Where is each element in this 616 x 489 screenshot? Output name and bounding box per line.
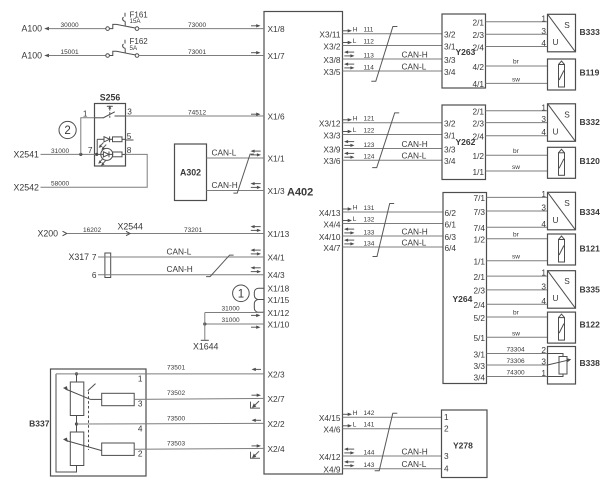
wire sw to B122 — [487, 336, 548, 338]
circled 1 marker — [233, 285, 250, 302]
svg-text:73001: 73001 — [188, 49, 206, 56]
svg-text:4/2: 4/2 — [472, 62, 484, 72]
svg-text:CAN-H: CAN-H — [402, 139, 428, 149]
svg-text:1: 1 — [238, 289, 244, 301]
sensor B335 (pressure) — [548, 271, 576, 309]
svg-text:114: 114 — [364, 64, 375, 71]
svg-text:H: H — [353, 26, 358, 33]
wire Y264 7/4 to B334/4 — [487, 226, 548, 228]
wire 73000 — [139, 28, 264, 30]
svg-text:X1/8: X1/8 — [268, 24, 285, 34]
svg-text:15001: 15001 — [61, 49, 79, 56]
svg-text:X1/10: X1/10 — [268, 320, 290, 330]
junction dot — [203, 322, 206, 325]
svg-text:1: 1 — [541, 102, 546, 112]
svg-text:3: 3 — [541, 114, 546, 124]
S256 switch contact — [107, 105, 113, 107]
svg-text:4: 4 — [138, 424, 143, 434]
sensor B119 (temperature) — [548, 59, 576, 90]
svg-text:CAN-H: CAN-H — [402, 226, 428, 236]
sensor B333 (pressure) — [548, 14, 576, 52]
svg-text:X4/4: X4/4 — [323, 219, 340, 229]
svg-text:X3/5: X3/5 — [323, 67, 340, 77]
svg-text:7/1: 7/1 — [473, 193, 485, 203]
svg-text:X2542: X2542 — [14, 183, 40, 193]
svg-text:134: 134 — [364, 240, 375, 247]
wire sw to B120 — [486, 170, 548, 172]
svg-text:5/1: 5/1 — [473, 333, 485, 343]
svg-text:132: 132 — [364, 216, 375, 223]
wire Y262 2/3 to B332/3 — [486, 122, 548, 124]
svg-text:CAN-L: CAN-L — [212, 147, 237, 157]
svg-text:15A: 15A — [130, 18, 142, 25]
wire 143 CAN-L — [343, 468, 442, 470]
svg-text:B337: B337 — [29, 419, 50, 429]
svg-text:73306: 73306 — [507, 358, 525, 365]
svg-text:X4/9: X4/9 — [323, 465, 340, 475]
wire 73304 (Y264 3/1 to B338/2) — [487, 353, 548, 355]
svg-text:4/1: 4/1 — [472, 79, 484, 89]
wire 133 CAN-H — [343, 235, 444, 237]
svg-text:X2541: X2541 — [14, 150, 40, 160]
svg-text:br: br — [513, 148, 520, 155]
svg-text:6: 6 — [92, 270, 97, 280]
svg-text:4: 4 — [541, 38, 546, 48]
wire 123 CAN-H — [343, 148, 443, 150]
wire 73001 — [139, 55, 264, 57]
svg-text:111: 111 — [364, 27, 374, 34]
svg-text:31000: 31000 — [51, 148, 69, 155]
fuse F162 5A — [106, 54, 110, 58]
wire 16202 / 73201 (X200 to X1/13) — [67, 233, 264, 235]
svg-text:4: 4 — [541, 219, 546, 229]
svg-text:3/1: 3/1 — [473, 349, 485, 359]
svg-text:8: 8 — [127, 145, 132, 155]
svg-text:X4/1: X4/1 — [268, 253, 285, 263]
wire Y264 2/1 to B335/1 — [487, 275, 548, 277]
sensor B121 (temperature) — [548, 234, 576, 265]
wire br to B121 — [487, 238, 548, 240]
B337 resistor (pin 3) — [102, 393, 135, 405]
svg-text:1: 1 — [138, 373, 143, 383]
wire Y262 2/1 to B332/1 — [486, 110, 548, 112]
svg-text:X3/6: X3/6 — [323, 156, 340, 166]
wire CAN-H (A302 to X1/3) — [207, 190, 265, 192]
sensor B334 (pressure) — [548, 192, 576, 230]
svg-text:3: 3 — [541, 26, 546, 36]
jumper X1/15 to X1/12 — [254, 300, 264, 313]
jumper X1/18 to X1/15 — [254, 288, 264, 299]
wire 132 (L) — [343, 223, 444, 225]
svg-text:B120: B120 — [580, 156, 601, 166]
svg-text:2/3: 2/3 — [472, 118, 484, 128]
svg-text:1: 1 — [541, 13, 546, 23]
svg-text:5: 5 — [127, 131, 132, 141]
svg-text:2/4: 2/4 — [473, 300, 485, 310]
svg-text:3/3: 3/3 — [473, 361, 485, 371]
wire Y264 2/4 to B335/4 — [487, 303, 548, 305]
svg-text:X1/7: X1/7 — [268, 51, 285, 61]
svg-text:A302: A302 — [180, 168, 201, 178]
svg-text:Y264: Y264 — [453, 294, 473, 304]
wire 58000 (X2542 to S256/8) — [41, 154, 148, 187]
svg-text:X4/7: X4/7 — [323, 243, 340, 253]
svg-text:X1/3: X1/3 — [268, 186, 285, 196]
wire 73502 (B337/3 to X2/7) — [134, 398, 264, 399]
wire 134 CAN-L — [343, 246, 444, 248]
wire 141 (L) — [343, 428, 442, 430]
svg-text:CAN-L: CAN-L — [402, 61, 427, 71]
wire br to B122 — [487, 316, 548, 318]
svg-text:2/1: 2/1 — [472, 18, 484, 28]
wire Y263 2/4 to B333/4 — [486, 46, 548, 48]
wire 114 CAN-L — [343, 70, 443, 72]
svg-text:H: H — [353, 205, 358, 212]
svg-text:CAN-H: CAN-H — [402, 49, 428, 59]
svg-text:4: 4 — [541, 127, 546, 137]
ground X1644 — [204, 313, 206, 340]
svg-text:3/2: 3/2 — [444, 119, 456, 129]
svg-text:X3/8: X3/8 — [323, 55, 340, 65]
wire 31000 (X2541 to S256/7) — [41, 153, 97, 155]
svg-text:CAN-L: CAN-L — [402, 459, 427, 469]
svg-text:X4/3: X4/3 — [268, 270, 285, 280]
svg-text:L: L — [353, 216, 357, 223]
svg-text:1/2: 1/2 — [473, 235, 485, 245]
wire 74300 (Y264 3/4 to B338/1) — [487, 376, 548, 378]
B337 wiper 2 — [66, 440, 102, 450]
B338 potentiometer resistor — [559, 357, 567, 375]
svg-text:X1/1: X1/1 — [268, 154, 285, 164]
svg-text:2/3: 2/3 — [473, 286, 485, 296]
svg-text:X4/12: X4/12 — [319, 452, 341, 462]
svg-text:H: H — [353, 410, 358, 417]
svg-text:B122: B122 — [580, 320, 601, 330]
svg-text:4: 4 — [541, 296, 546, 306]
wire sw to B121 — [487, 260, 548, 262]
wire 74512 (S256/3 to X1/6) — [126, 115, 265, 117]
svg-text:B338: B338 — [580, 358, 601, 368]
twisted pair marker — [372, 113, 399, 168]
control unit A302 box — [175, 144, 207, 201]
svg-text:7: 7 — [92, 252, 97, 262]
svg-text:1: 1 — [83, 108, 88, 118]
B337 coupling dashed line — [88, 392, 90, 451]
svg-text:A100: A100 — [22, 23, 43, 33]
svg-text:131: 131 — [364, 205, 375, 212]
wire 73500 (B337/4 to X2/2) — [77, 422, 265, 425]
svg-text:7: 7 — [88, 145, 93, 155]
wire 122 (L) — [343, 134, 443, 136]
svg-text:L: L — [353, 127, 357, 134]
B337 potentiometer 1 — [70, 382, 84, 416]
wire 142 (H) — [343, 416, 442, 418]
svg-text:3/1: 3/1 — [444, 130, 456, 140]
svg-text:X4/13: X4/13 — [319, 208, 341, 218]
B337 wiper 1 — [66, 389, 91, 399]
svg-text:X2544: X2544 — [118, 222, 144, 232]
connector unit Y264 box — [443, 193, 487, 384]
svg-text:X2/3: X2/3 — [268, 369, 285, 379]
svg-text:B332: B332 — [580, 117, 601, 127]
svg-text:X1644: X1644 — [193, 341, 219, 351]
junction dot (pin 4 wire) — [75, 422, 78, 425]
svg-text:br: br — [513, 310, 520, 317]
svg-text:58000: 58000 — [51, 181, 69, 188]
wire Y262 2/4 to B332/4 — [486, 135, 548, 137]
junction dot (pin 1 wire) — [75, 372, 78, 375]
sensor B120 (temperature) — [548, 147, 576, 178]
wire 111 (H) — [343, 33, 443, 35]
wire 31000 (to X1/12) — [205, 312, 264, 314]
svg-text:X3/11: X3/11 — [319, 30, 340, 40]
svg-text:7/4: 7/4 — [473, 223, 485, 233]
svg-text:X2/4: X2/4 — [268, 444, 285, 454]
S256 resistor (pin 8) — [109, 153, 113, 155]
svg-text:124: 124 — [364, 154, 375, 161]
svg-text:30000: 30000 — [61, 22, 79, 29]
svg-text:73501: 73501 — [167, 365, 185, 372]
sensor B332 (pressure) — [548, 104, 576, 142]
svg-text:2/1: 2/1 — [472, 107, 484, 117]
wire 124 CAN-L — [343, 159, 443, 161]
svg-text:3: 3 — [138, 399, 143, 409]
svg-text:5A: 5A — [130, 45, 138, 52]
svg-text:2: 2 — [444, 424, 449, 434]
svg-text:L: L — [353, 38, 357, 45]
svg-text:CAN-L: CAN-L — [402, 151, 427, 161]
svg-text:X3/9: X3/9 — [323, 144, 340, 154]
wire 73503 (B337/2 to X2/4) — [134, 447, 264, 450]
svg-text:br: br — [513, 231, 520, 238]
svg-text:3: 3 — [541, 203, 546, 213]
svg-text:2: 2 — [541, 345, 546, 355]
wire 31000 (to X1/10) — [205, 323, 264, 325]
junction dot — [79, 153, 82, 156]
svg-text:X317: X317 — [69, 252, 90, 262]
svg-text:A100: A100 — [22, 50, 43, 60]
svg-text:122: 122 — [364, 127, 375, 134]
svg-text:L: L — [353, 421, 357, 428]
wire 73501 (B337/1 to X2/3) — [56, 373, 264, 375]
svg-text:2/3: 2/3 — [472, 30, 484, 40]
svg-text:6/4: 6/4 — [445, 243, 457, 253]
wire 112 (L) — [343, 45, 443, 47]
svg-text:1/1: 1/1 — [472, 167, 484, 177]
svg-text:6/2: 6/2 — [445, 208, 457, 218]
connector unit Y278 box — [442, 410, 488, 478]
svg-text:142: 142 — [364, 410, 375, 417]
svg-text:16202: 16202 — [83, 227, 101, 234]
wire 73306 (Y264 3/3 to B338/3) — [487, 364, 548, 366]
B337 internal supply loop — [56, 374, 77, 472]
sensor B338 (potentiometer) box — [548, 347, 576, 385]
svg-text:X1/18: X1/18 — [268, 284, 290, 294]
svg-text:X2/7: X2/7 — [268, 394, 285, 404]
svg-text:H: H — [353, 115, 358, 122]
wire br to B120 — [486, 154, 548, 156]
svg-text:31000: 31000 — [222, 305, 240, 312]
twisted pair marker — [371, 27, 397, 82]
svg-text:144: 144 — [364, 449, 375, 456]
svg-text:1: 1 — [444, 412, 449, 422]
wire Y264 7/3 to B334/3 — [487, 210, 548, 212]
wire sw to B119 — [486, 82, 548, 84]
svg-text:B119: B119 — [580, 68, 600, 78]
svg-text:1/2: 1/2 — [472, 151, 484, 161]
svg-text:3/3: 3/3 — [444, 144, 456, 154]
wire 144 CAN-H — [343, 455, 442, 457]
svg-text:CAN-H: CAN-H — [167, 264, 193, 274]
svg-text:X2/2: X2/2 — [268, 419, 285, 429]
sensor B122 (temperature) — [548, 312, 576, 343]
svg-text:123: 123 — [364, 142, 375, 149]
svg-text:112: 112 — [364, 38, 375, 45]
svg-text:143: 143 — [364, 462, 375, 469]
B337 actuation stroke — [88, 384, 96, 391]
svg-text:X1/12: X1/12 — [268, 308, 290, 318]
svg-text:X4/10: X4/10 — [319, 232, 341, 242]
svg-text:3/4: 3/4 — [473, 372, 485, 382]
svg-text:X3/12: X3/12 — [319, 119, 341, 129]
svg-text:X1/13: X1/13 — [268, 229, 290, 239]
svg-text:73304: 73304 — [507, 346, 525, 353]
svg-text:3/4: 3/4 — [444, 156, 456, 166]
svg-text:br: br — [513, 59, 520, 66]
twisted pair marker — [375, 413, 398, 470]
svg-text:B121: B121 — [580, 244, 601, 254]
svg-text:CAN-L: CAN-L — [167, 246, 192, 256]
wire Y263 2/1 to B333/1 — [486, 21, 548, 23]
B337 potentiometer 2 — [70, 432, 84, 466]
svg-text:6/1: 6/1 — [445, 219, 457, 229]
wire junction to S256 pin 1 — [81, 118, 95, 155]
B337 resistor (pin 2) — [102, 443, 135, 455]
svg-text:4: 4 — [444, 464, 449, 474]
svg-text:113: 113 — [364, 52, 375, 59]
wire CAN-L (X317/7 to X4/1) — [98, 256, 264, 258]
svg-text:2/4: 2/4 — [472, 132, 484, 142]
svg-text:S256: S256 — [100, 93, 121, 103]
twisted pair marker (X317 CAN) — [206, 255, 234, 277]
S256 LED 2 — [101, 148, 113, 160]
svg-text:sw: sw — [512, 76, 520, 83]
sensor B337 box — [51, 369, 147, 476]
wire 30000 — [49, 28, 106, 30]
svg-text:X4/6: X4/6 — [323, 425, 340, 435]
control unit A402 box — [264, 12, 343, 475]
svg-text:3/1: 3/1 — [444, 41, 456, 51]
wire 131 (H) — [343, 211, 444, 213]
svg-text:31000: 31000 — [222, 317, 240, 324]
svg-text:X1/6: X1/6 — [268, 112, 285, 122]
wire 113 CAN-H — [343, 58, 443, 60]
svg-text:73201: 73201 — [184, 227, 202, 234]
svg-text:CAN-H: CAN-H — [212, 180, 238, 190]
svg-text:3/2: 3/2 — [444, 30, 456, 40]
svg-text:B335: B335 — [580, 285, 601, 295]
connector unit Y262 box — [442, 105, 486, 180]
svg-text:1: 1 — [541, 268, 546, 278]
wire Y264 2/3 to B335/3 — [487, 289, 548, 291]
svg-text:X3/3: X3/3 — [323, 130, 340, 140]
svg-text:141: 141 — [364, 422, 375, 429]
svg-text:1: 1 — [541, 368, 546, 378]
svg-text:X1/15: X1/15 — [268, 295, 290, 305]
svg-text:73500: 73500 — [167, 416, 185, 423]
svg-text:3: 3 — [541, 357, 546, 367]
svg-text:74300: 74300 — [507, 369, 525, 376]
svg-text:3: 3 — [444, 451, 449, 461]
svg-text:Y278: Y278 — [453, 441, 473, 451]
S256 resistor (pin 5) — [110, 138, 113, 140]
svg-text:CAN-H: CAN-H — [402, 446, 428, 456]
wire Y264 7/1 to B334/1 — [487, 196, 548, 198]
svg-text:7/3: 7/3 — [473, 207, 485, 217]
svg-text:73503: 73503 — [167, 441, 185, 448]
svg-text:73502: 73502 — [167, 390, 185, 397]
switch S256 box — [95, 104, 126, 167]
svg-text:B334: B334 — [580, 207, 601, 217]
svg-text:73000: 73000 — [188, 22, 206, 29]
svg-text:X4/15: X4/15 — [319, 413, 341, 423]
twisted pair marker (A302 CAN) — [233, 154, 254, 193]
twisted pair marker — [373, 204, 395, 257]
wire 15001 — [49, 55, 106, 57]
svg-text:sw: sw — [512, 254, 520, 261]
svg-text:121: 121 — [364, 116, 375, 123]
fuse F161 15A — [106, 27, 110, 31]
wire CAN-H (X317/6 to X4/3) — [98, 274, 264, 276]
svg-text:sw: sw — [512, 164, 520, 171]
svg-text:1/1: 1/1 — [473, 257, 485, 267]
S256 LED 1 — [97, 138, 104, 140]
svg-text:2/1: 2/1 — [473, 272, 485, 282]
svg-text:6/3: 6/3 — [445, 232, 457, 242]
svg-text:1: 1 — [541, 189, 546, 199]
svg-text:133: 133 — [364, 229, 375, 236]
svg-text:2: 2 — [138, 448, 143, 458]
svg-text:A402: A402 — [287, 187, 313, 199]
connector unit Y263 box — [442, 14, 486, 88]
wire 121 (H) — [343, 122, 443, 124]
svg-text:3: 3 — [127, 106, 132, 116]
wire CAN-L (A302 to X1/1) — [207, 157, 265, 159]
wire Y263 2/3 to B333/3 — [486, 33, 548, 35]
svg-text:sw: sw — [512, 330, 520, 337]
svg-text:X3/2: X3/2 — [323, 41, 340, 51]
svg-text:3/4: 3/4 — [444, 67, 456, 77]
svg-text:3/3: 3/3 — [444, 55, 456, 65]
svg-text:74512: 74512 — [188, 109, 206, 116]
B338 wiper arrow — [548, 360, 568, 365]
wire pin7 junction up to LED1 — [96, 139, 98, 154]
svg-text:X200: X200 — [38, 229, 59, 239]
svg-text:2: 2 — [64, 125, 70, 137]
svg-text:2/4: 2/4 — [472, 42, 484, 52]
svg-text:3: 3 — [541, 281, 546, 291]
junction dot at pin 7 — [95, 153, 98, 156]
S256 pin 5 stub — [126, 139, 134, 141]
svg-text:CAN-L: CAN-L — [402, 237, 427, 247]
circled 2 marker — [59, 121, 76, 138]
wire br to B119 — [486, 65, 548, 67]
svg-text:B333: B333 — [580, 27, 601, 37]
svg-text:5/2: 5/2 — [473, 313, 485, 323]
